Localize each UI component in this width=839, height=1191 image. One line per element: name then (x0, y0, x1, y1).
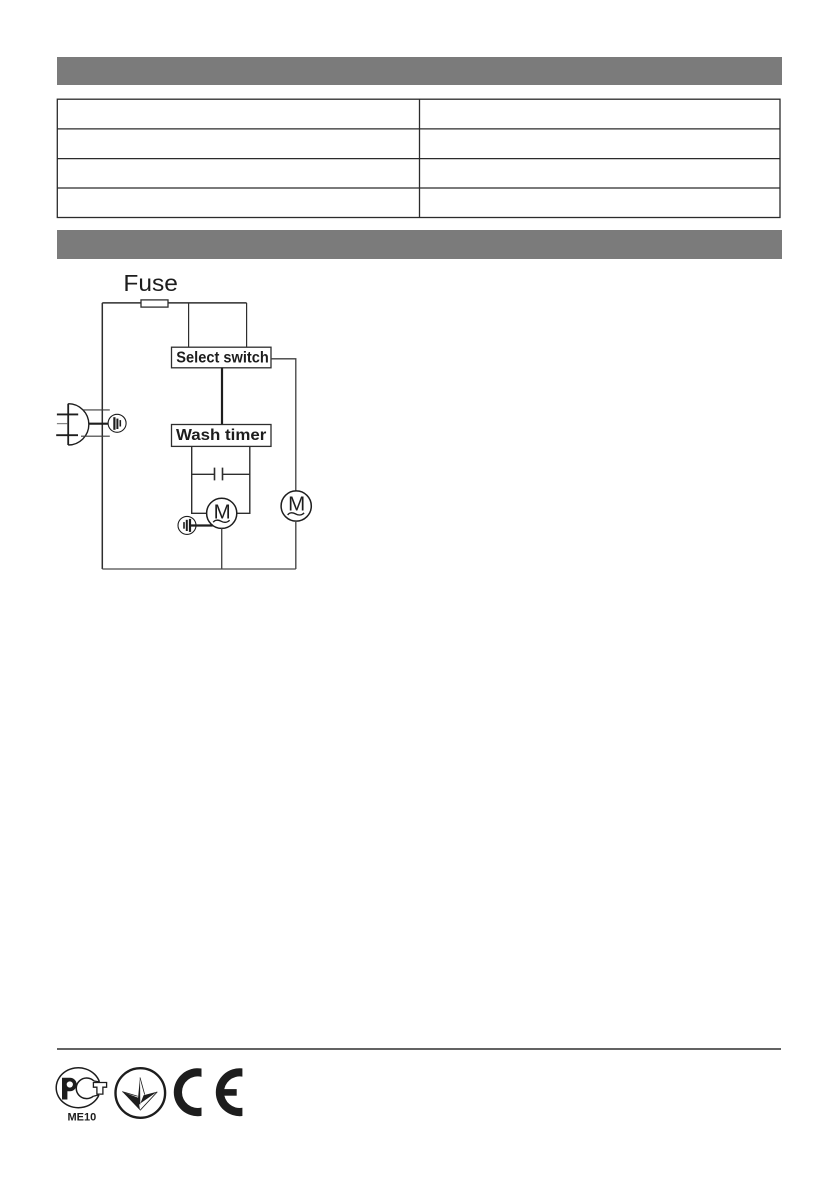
fuse F1 (141, 300, 168, 307)
section header bar 1 (57, 57, 782, 85)
wire plug earth (89, 423, 114, 425)
logo UkrSEPRO trident circle (116, 1068, 166, 1118)
svg-text:ME10: ME10 (68, 1112, 97, 1124)
logo CE mark letter E (216, 1068, 243, 1116)
wash timer box (172, 425, 272, 447)
capacitor C1 (192, 468, 250, 481)
wire drop to select switch left (188, 303, 190, 347)
logo GOST-R letter T (93, 1083, 106, 1095)
ground G2 (motor earth) (178, 516, 196, 534)
footer rule (57, 1048, 782, 1050)
wire plug line L to circuit (84, 409, 110, 411)
motor M2 (drain/spin motor) (281, 491, 311, 521)
logo GOST-R PCT outer C (56, 1068, 99, 1108)
logo CE mark letter C (174, 1068, 202, 1116)
wire left vertical (101, 303, 103, 569)
label Fuse (123, 270, 177, 296)
logo label ME10 (68, 1112, 97, 1124)
ground G1 (plug earth) (108, 414, 126, 432)
select switch box (172, 347, 272, 368)
logo UkrSEPRO trident blades (122, 1078, 157, 1111)
wire wash timer right drop (237, 446, 250, 513)
wire select switch to wash timer (thick) (221, 368, 223, 425)
wire motor M1 to bottom (221, 528, 223, 569)
wire wash timer left drop (192, 446, 207, 513)
motor M1 (wash motor) (207, 498, 237, 528)
wire from select switch to motor M2 (271, 359, 296, 491)
wire motor M2 to bottom (295, 521, 297, 569)
wire top horizontal (102, 302, 246, 304)
section header bar 2 (57, 230, 782, 259)
wire ground G2 to motor M1 (191, 524, 213, 526)
wire drop to select switch right (246, 303, 248, 347)
logo GOST-R letter P (62, 1078, 77, 1100)
wire plug line N to circuit (81, 435, 110, 437)
plug P1 (56, 404, 89, 445)
wire bottom horizontal (102, 568, 295, 570)
